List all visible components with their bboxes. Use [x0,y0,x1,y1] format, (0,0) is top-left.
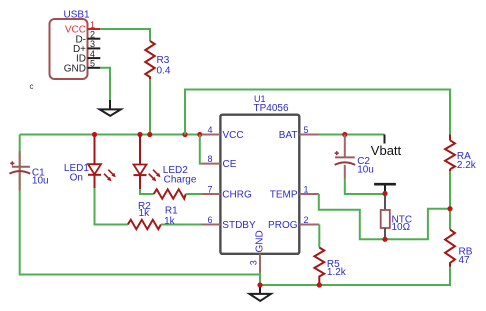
wire R1 to CHRG [186,193,202,195]
junction R5/rail [317,282,322,287]
svg-text:STDBY: STDBY [222,220,256,231]
wire BAT to Vbatt [319,134,385,136]
wire TEMP to NTC bottom and divider [319,194,450,239]
wire USB GND to ground [100,68,110,100]
wire top-right feed [185,90,450,135]
wire RB bottom to rail [260,267,450,286]
junction NTC top [382,191,387,196]
wire LED2 to R1 [140,189,154,194]
U1 pin 8 CE [202,154,237,170]
junction CE/bus [197,132,202,137]
svg-text:PROG: PROG [268,220,298,231]
LED LED1 [64,135,116,189]
svg-text:2: 2 [90,30,95,40]
svg-text:47: 47 [459,255,471,266]
thermistor NTC [381,194,412,240]
svg-text:5: 5 [90,59,95,69]
svg-text:8: 8 [207,154,212,164]
wire VCC bus [20,134,202,136]
resistor R1 (CHRG series) [154,189,186,198]
svg-text:2: 2 [304,215,309,225]
svg-text:1: 1 [90,20,95,30]
svg-text:GND: GND [254,230,265,252]
svg-text:VCC: VCC [223,130,244,141]
junction R3/bus [147,132,152,137]
capacitor C1 [9,151,48,191]
junction GND [257,282,262,287]
terminal Vbatt [371,135,402,158]
svg-text:R1: R1 [165,206,178,217]
svg-text:10Ω: 10Ω [392,222,411,233]
svg-text:5: 5 [304,125,309,135]
wire left rail [20,135,260,275]
USB1 pin 4 ID [76,49,100,65]
LED LED2 [134,135,197,190]
svg-text:1: 1 [304,184,309,194]
svg-text:Vbatt: Vbatt [371,143,402,158]
U1 pin 6 STDBY [202,215,256,231]
resistor RA [445,135,477,172]
ground (main) [250,287,271,301]
svg-text:GND: GND [64,63,86,74]
svg-text:7: 7 [207,184,212,194]
svg-text:2.2k: 2.2k [457,160,477,171]
svg-text:BAT: BAT [279,130,298,141]
wire PROG to R5 [318,225,320,248]
svg-text:TEMP: TEMP [270,190,298,201]
wire R3 bottom to bus [149,79,151,135]
svg-text:3: 3 [90,39,95,49]
svg-text:Charge: Charge [164,174,197,185]
wire LED1 to R2 [95,188,128,225]
svg-text:4: 4 [90,49,95,59]
USB1 pin 5 GND [64,59,101,75]
U1 pin 4 VCC [202,125,244,141]
USB1 pin 1 VCC [65,20,100,36]
svg-text:c: c [30,82,34,91]
svg-text:CE: CE [223,159,237,170]
ground bar (NTC top) [374,184,396,193]
ground (USB) [100,100,121,116]
svg-text:4: 4 [207,125,212,135]
junction divider [447,206,452,211]
junction C2/BAT [342,132,347,137]
svg-text:On: On [70,173,83,184]
capacitor C2 [335,135,374,179]
svg-text:0.4: 0.4 [157,66,171,77]
IC U1 TP4056 body [220,94,299,254]
resistor R2 [128,201,161,229]
wire CE drop [200,135,202,164]
junction LED2/bus [137,132,142,137]
resistor R5 [314,248,346,286]
svg-text:USB1: USB1 [64,10,91,21]
svg-text:1k: 1k [139,208,151,219]
USB1 pin 3 D+ [73,39,100,55]
wire RA bottom to junction [449,171,451,230]
svg-text:6: 6 [207,215,212,225]
svg-text:10u: 10u [32,175,49,186]
svg-text:R3: R3 [157,55,170,66]
U1 pin 2 PROG [268,215,319,231]
U1 pin 5 BAT [279,125,319,141]
label R1 [164,206,178,227]
junction NTC bottom [382,237,387,242]
resistor R3 [145,41,171,79]
wire R2 to STDBY [161,224,202,226]
svg-text:CHRG: CHRG [222,190,252,201]
svg-text:3: 3 [249,260,259,265]
svg-text:TP4056: TP4056 [254,103,289,114]
wire GND pin to rail [259,273,261,286]
connector USB1 body [50,10,91,80]
svg-text:1.2k: 1.2k [327,267,347,278]
wire USB pin1 to R3 top [100,29,150,41]
junction top-right feed/bus [182,132,187,137]
USB1 pin 2 D- [75,30,100,46]
resistor RB [445,230,473,267]
svg-text:10u: 10u [357,165,374,176]
junction LED1/bus [92,132,97,137]
svg-text:1k: 1k [164,216,176,227]
wire C2 bottom to NTC top [345,179,385,195]
U1 pin 1 TEMP [270,184,319,200]
U1 pin 7 CHRG [202,184,252,200]
U1 pin 3 GND [249,230,266,272]
